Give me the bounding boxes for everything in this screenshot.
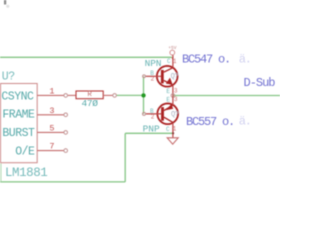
svg-text:BC547 o.: BC547 o. bbox=[182, 53, 230, 67]
svg-text:1: 1 bbox=[173, 58, 177, 65]
svg-text:ä.: ä. bbox=[239, 52, 251, 66]
svg-text:ä.: ä. bbox=[239, 115, 251, 129]
node base junction bbox=[141, 93, 145, 97]
transistor Q1 NPN BC547 bbox=[143, 55, 178, 97]
svg-text:BURST: BURST bbox=[2, 127, 35, 140]
transistor Q2 PNP BC557 bbox=[143, 96, 179, 138]
pin 7 O/E bbox=[37, 150, 63, 152]
wire resistor to base junction bbox=[117, 94, 144, 96]
wire left stub bbox=[0, 164, 2, 182]
svg-text:47Ø: 47Ø bbox=[82, 98, 99, 109]
svg-text:E: E bbox=[166, 88, 170, 95]
svg-text:LM1881: LM1881 bbox=[5, 166, 47, 180]
svg-text:Q?: Q? bbox=[171, 111, 179, 119]
ground bbox=[167, 138, 178, 144]
wire +5V rail bbox=[0, 56, 172, 58]
svg-text:PNP: PNP bbox=[143, 124, 160, 135]
svg-text:5: 5 bbox=[49, 123, 54, 133]
wire output to D-Sub bbox=[174, 95, 281, 97]
svg-text:Q?: Q? bbox=[171, 73, 179, 81]
wire ground net horizontal bbox=[125, 132, 172, 134]
svg-text:3: 3 bbox=[49, 106, 54, 116]
svg-text:D-Sub: D-Sub bbox=[244, 76, 276, 90]
svg-text:O/E: O/E bbox=[15, 146, 35, 159]
wire ground net vertical bbox=[124, 133, 126, 182]
IC U? LM1881 box bbox=[1, 84, 38, 163]
svg-text:CSYNC: CSYNC bbox=[1, 90, 34, 103]
svg-text:C: C bbox=[166, 126, 170, 133]
svg-text:7: 7 bbox=[49, 142, 54, 152]
svg-text:NPN: NPN bbox=[145, 58, 162, 69]
svg-text:C: C bbox=[167, 58, 171, 65]
svg-text:2: 2 bbox=[151, 114, 155, 121]
svg-text:U?: U? bbox=[2, 70, 15, 83]
svg-text:1: 1 bbox=[49, 86, 54, 96]
pin 3 FRAME bbox=[37, 114, 63, 116]
svg-text:1: 1 bbox=[173, 125, 177, 132]
svg-text:BC557 o.: BC557 o. bbox=[186, 115, 234, 129]
wire base vertical bbox=[143, 76, 145, 114]
wire ground net bottom bbox=[0, 181, 125, 183]
resistor R? 470 bbox=[68, 94, 76, 96]
supply +5V symbol bbox=[170, 50, 175, 55]
pin 1 CSYNC bbox=[37, 94, 63, 96]
stray mark top-left bbox=[4, 0, 6, 5]
svg-text:2: 2 bbox=[151, 76, 155, 83]
svg-text:3: 3 bbox=[174, 96, 178, 103]
pin 5 BURST bbox=[37, 131, 63, 133]
svg-text:FRAME: FRAME bbox=[2, 109, 35, 122]
svg-text:3: 3 bbox=[174, 88, 178, 95]
svg-text:E: E bbox=[166, 97, 170, 104]
node collector/ground junction bbox=[172, 132, 174, 134]
